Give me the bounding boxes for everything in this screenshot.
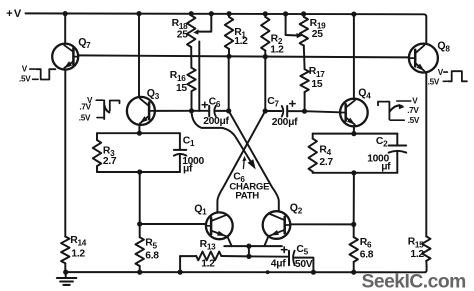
wire Q8 emitter line <box>425 73 427 237</box>
capacitor C2 <box>389 134 407 173</box>
svg-text:4μf: 4μf <box>271 259 286 270</box>
wire C7 left lead <box>265 110 281 112</box>
resistor R5 <box>136 224 144 272</box>
label C2 <box>376 136 388 149</box>
watermark SeekIC.com <box>362 271 466 291</box>
svg-text:1.2: 1.2 <box>71 248 85 259</box>
node C7 right junction <box>302 109 307 114</box>
wire Q3 base lead <box>155 110 192 112</box>
svg-text:.5V: .5V <box>408 116 420 125</box>
label R18 value <box>172 18 189 40</box>
svg-text:μf: μf <box>381 162 391 173</box>
resistor R1 <box>225 14 233 57</box>
wire Q4 base lead <box>305 111 341 112</box>
transistor Q2 <box>263 211 291 239</box>
wire right loop top <box>313 133 398 135</box>
transistor Q1 <box>206 212 233 239</box>
svg-text:V: V <box>22 64 28 73</box>
svg-text:50V: 50V <box>295 259 313 270</box>
resistor R17 <box>300 69 308 111</box>
node right loop bottom junction <box>351 170 356 175</box>
wire R19 wiper arm <box>286 14 302 38</box>
resistor R15 <box>422 236 430 266</box>
wire right riser loop to base <box>353 173 355 225</box>
svg-text:.5V: .5V <box>428 78 440 87</box>
arrow charge path label pointer <box>242 156 246 169</box>
node Q3 emitter junction <box>137 131 142 136</box>
resistor R13 <box>180 252 249 261</box>
svg-text:.5V: .5V <box>19 75 31 84</box>
svg-text:1.2: 1.2 <box>234 36 248 47</box>
label C5 plus <box>281 247 287 253</box>
wire base bus Q7-Q8 <box>78 55 409 57</box>
wire cross-coupling C6 to Q2 <box>229 111 279 211</box>
svg-text:15: 15 <box>176 83 187 94</box>
capacitor C6 <box>209 106 229 117</box>
wire C6 left lead <box>192 110 209 112</box>
label C6 plus <box>202 102 207 107</box>
label R4 value <box>319 145 333 168</box>
node left loop bottom junction <box>137 169 142 174</box>
label C7 value <box>272 117 298 128</box>
svg-text:SeekIC.com: SeekIC.com <box>362 271 466 291</box>
wire emitter drop <box>248 246 250 256</box>
transistor Q3 <box>127 97 155 125</box>
svg-text:200μf: 200μf <box>272 117 298 128</box>
svg-text:+V: +V <box>6 8 22 20</box>
label Q8 <box>437 40 450 54</box>
wire charge path stub <box>198 42 200 111</box>
wire R13 left riser <box>179 256 181 272</box>
svg-text:1.2: 1.2 <box>270 44 284 55</box>
resistor R19 potentiometer <box>300 14 308 69</box>
wire charge path curve <box>192 111 253 165</box>
label R15 value <box>408 237 425 260</box>
svg-text:1.2: 1.2 <box>201 259 215 270</box>
node emitter drop junction <box>246 254 251 259</box>
resistor R2 <box>261 14 269 57</box>
node Q4 emitter junction <box>351 131 356 136</box>
wire bottom rail <box>66 266 427 273</box>
label R3 value <box>103 145 117 167</box>
label C5 <box>296 244 308 257</box>
label R13 value <box>200 239 216 270</box>
svg-text:25: 25 <box>177 29 188 40</box>
wire emitter tie bar <box>224 245 282 247</box>
capacitor C5 <box>289 251 295 266</box>
node C7 left junction <box>263 108 268 113</box>
wire left loop bottom <box>97 171 180 173</box>
wire left loop top <box>97 132 180 134</box>
wire Q4 collector riser <box>353 14 355 99</box>
label R19 value <box>310 18 326 40</box>
wire Q4 emitter stub <box>353 126 355 133</box>
transistor Q4 <box>340 99 368 127</box>
wire C5 right lead <box>294 258 313 273</box>
label R17 value <box>309 66 325 90</box>
capacitor C1 <box>174 133 186 172</box>
wire left riser loop to base <box>139 172 141 224</box>
wire Q7 emitter line <box>64 70 66 237</box>
label Q4 <box>358 87 371 101</box>
node Q1 base junction <box>137 221 142 226</box>
wire Q1 emitter lead <box>228 237 232 246</box>
annotation Q7 input waveform <box>19 64 55 83</box>
resistor R6 <box>350 224 358 272</box>
annotation Q3 base waveform <box>79 96 120 123</box>
resistor R18 potentiometer <box>187 15 195 67</box>
label +V <box>6 8 22 20</box>
resistor R3 <box>93 133 101 172</box>
svg-text:6.8: 6.8 <box>145 251 159 262</box>
svg-text:PATH: PATH <box>235 190 259 201</box>
label C7 plus <box>290 101 295 106</box>
node +V dots on top rail <box>63 11 357 17</box>
wire cross-coupling C7 to Q1 <box>217 111 265 213</box>
ground <box>57 272 76 285</box>
transistor Q8 <box>409 44 438 73</box>
svg-text:.5V: .5V <box>79 113 91 122</box>
wire Q3 emitter stub <box>138 125 140 133</box>
svg-text:V: V <box>438 68 444 77</box>
node C6 left junction <box>189 108 194 113</box>
label Q2 <box>290 202 303 216</box>
svg-text:25: 25 <box>312 29 323 40</box>
node bottom rail dots <box>63 270 356 275</box>
wire Q2 emitter lead <box>264 236 268 246</box>
label R6 value <box>360 237 374 260</box>
svg-text:μf: μf <box>183 163 193 174</box>
label C6 charge path <box>229 172 270 202</box>
svg-text:15: 15 <box>311 79 322 90</box>
label C6 <box>209 97 221 110</box>
label R14 value <box>70 235 86 259</box>
label C1 value <box>182 156 204 174</box>
label R5 value <box>145 238 159 262</box>
svg-text:1.2: 1.2 <box>410 249 424 260</box>
label C5 value <box>271 259 313 271</box>
wire C7 left riser <box>264 57 266 111</box>
label Q7 <box>78 37 91 51</box>
wire C6 right riser <box>228 56 230 111</box>
resistor R14 <box>61 237 69 273</box>
wire Q2 base lead <box>290 223 353 225</box>
node base bus junction dots <box>226 54 268 60</box>
label C1 <box>183 135 195 148</box>
node Q2 base junction <box>351 222 356 227</box>
label R2 value <box>270 34 284 56</box>
svg-text:2.7: 2.7 <box>103 156 117 167</box>
wire R18 wiper arm <box>193 14 211 35</box>
label R1 value <box>234 27 248 47</box>
svg-text:2.7: 2.7 <box>319 157 333 168</box>
annotation Q8 output waveform <box>428 68 467 87</box>
node emitter tie junction <box>246 244 251 249</box>
svg-text:6.8: 6.8 <box>360 249 374 260</box>
wire Q7 collector riser <box>64 14 66 44</box>
wire Q3 collector riser <box>138 14 140 98</box>
label C2 value <box>367 154 391 173</box>
node C6 right junction <box>226 108 231 113</box>
wire Q1 base lead <box>140 223 206 225</box>
wire +V top rail <box>26 13 427 43</box>
arrow charge path head <box>248 159 256 169</box>
capacitor C7 <box>282 106 305 117</box>
annotation Q4 base waveform <box>378 97 420 126</box>
resistor R16 <box>187 68 195 111</box>
label R16 value <box>170 70 188 94</box>
wire right loop bottom <box>313 172 398 174</box>
svg-text:200μf: 200μf <box>203 116 229 127</box>
wire C5 left lead <box>249 255 289 257</box>
resistor R4 <box>309 134 317 173</box>
label C6 value <box>203 116 229 127</box>
label Q1 <box>194 203 207 217</box>
svg-text:.7V: .7V <box>407 106 419 115</box>
label Q3 <box>147 87 160 101</box>
transistor Q7 <box>52 44 78 70</box>
svg-text:.7V: .7V <box>79 102 91 111</box>
svg-text:V: V <box>412 97 418 106</box>
label C7 <box>267 96 279 109</box>
